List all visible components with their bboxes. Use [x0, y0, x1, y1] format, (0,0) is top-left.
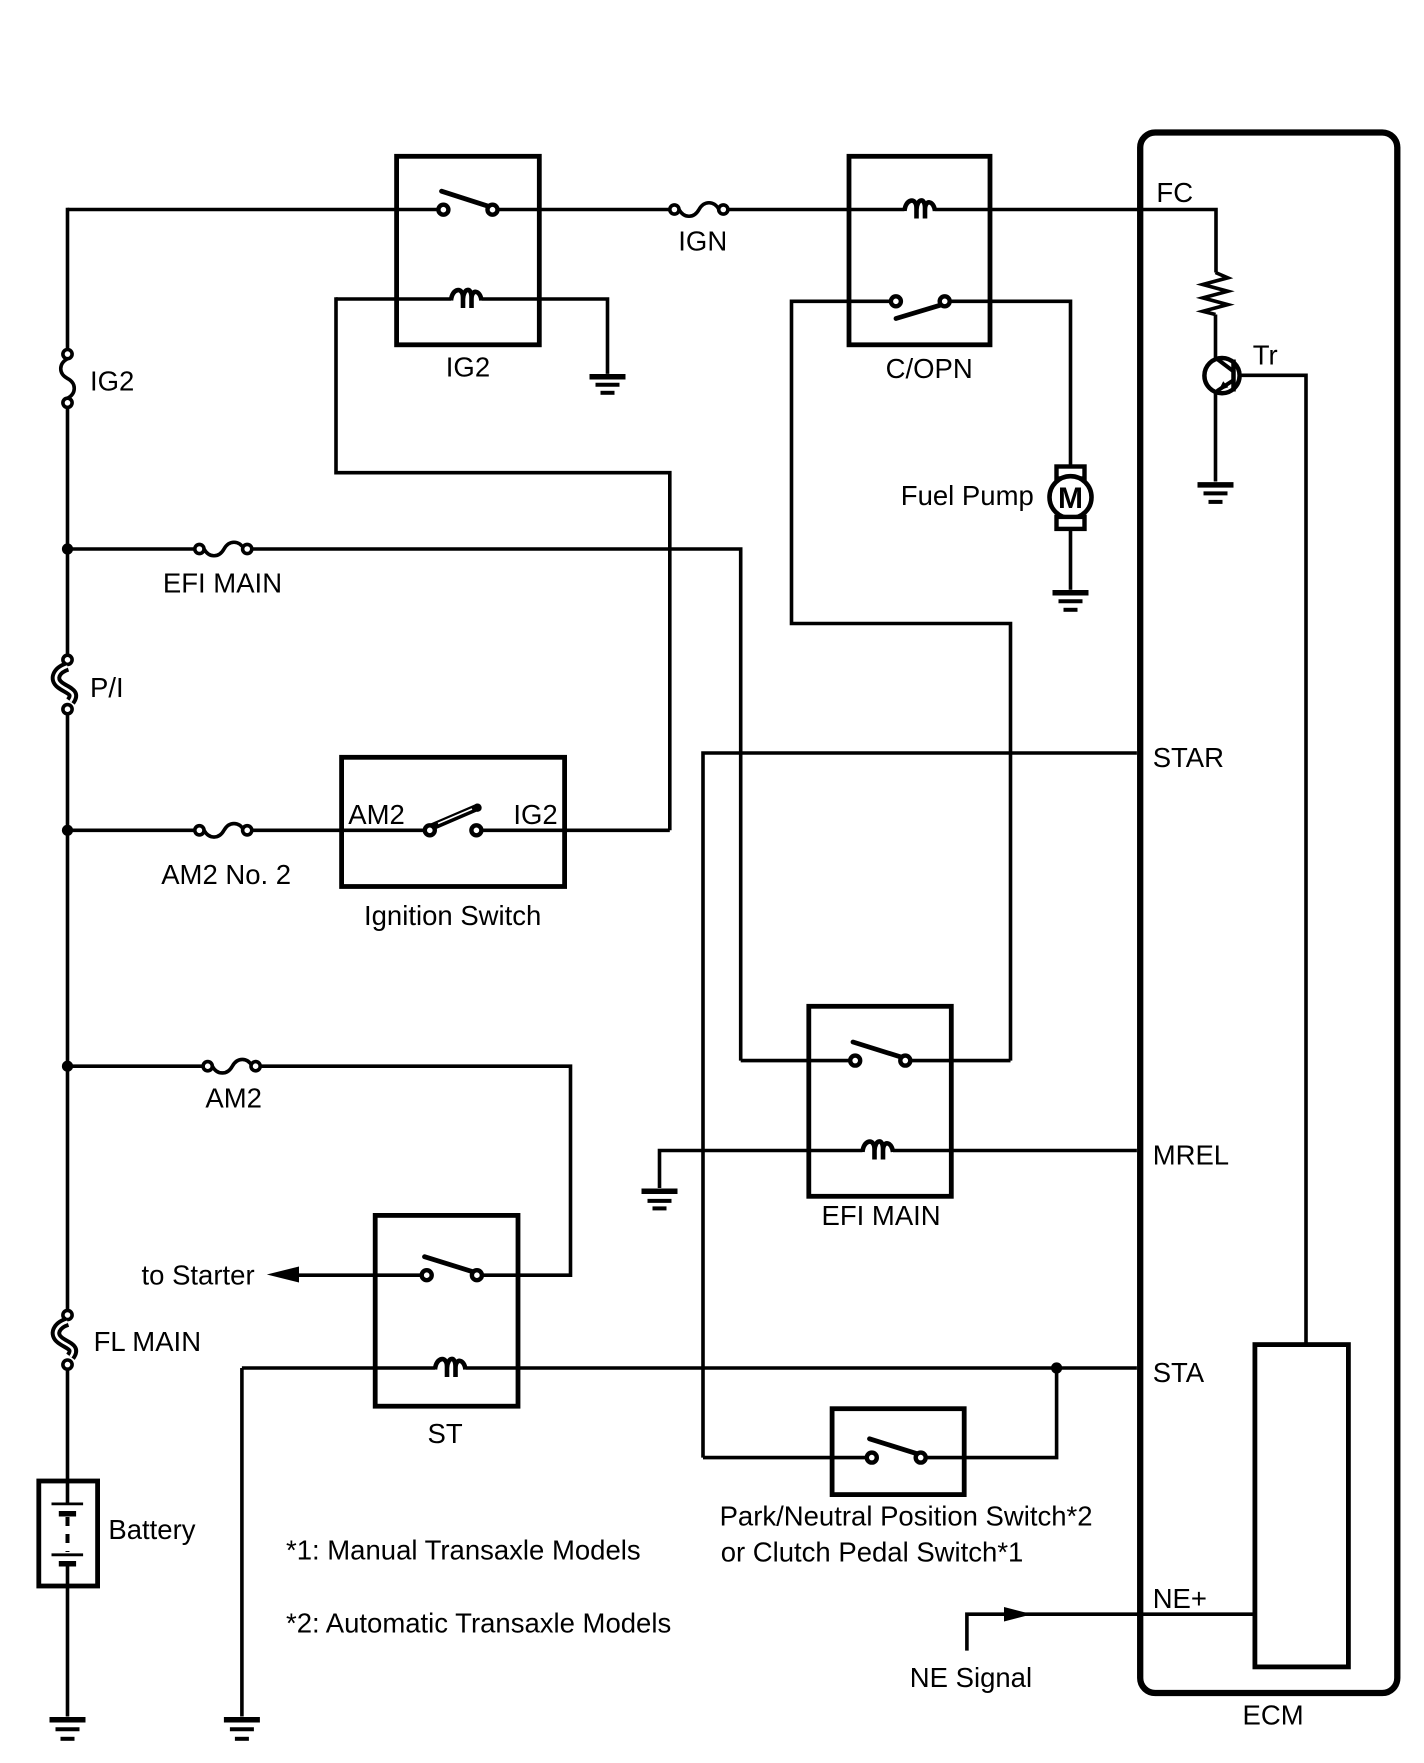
svg-text:STAR: STAR	[1153, 742, 1224, 773]
svg-text:C/OPN: C/OPN	[886, 353, 973, 384]
svg-text:P/I: P/I	[90, 672, 124, 703]
relay ST switch blade	[425, 1257, 474, 1272]
ground EFI MAIN relay coil	[642, 1189, 678, 1195]
svg-text:Fuel Pump: Fuel Pump	[901, 480, 1034, 511]
relay C/OPN switch right contact	[940, 296, 950, 306]
fusible link P/I top circle	[63, 655, 72, 664]
svg-text:NE Signal: NE Signal	[910, 1662, 1032, 1693]
wire to Starter	[296, 1273, 422, 1277]
wire top bus left segment from left bus corner to IG2 relay switch	[68, 208, 439, 212]
node junction dot left bus at AM2 No. 2 branch	[62, 825, 73, 836]
svg-text:AM2: AM2	[205, 1083, 262, 1114]
relay C/OPN switch blade	[896, 305, 942, 319]
svg-text:AM2: AM2	[348, 799, 405, 830]
park/neutral switch right contact	[916, 1453, 926, 1463]
svg-text:IG2: IG2	[513, 799, 557, 830]
svg-text:STA: STA	[1153, 1357, 1205, 1388]
wire AM2 No. 2 branch from left bus to fuse	[68, 828, 195, 832]
wire AM2 branch from fuse right to corner then down to ST relay switch	[260, 1066, 570, 1275]
svg-text:*2: Automatic Transaxle Models: *2: Automatic Transaxle Models	[286, 1608, 671, 1639]
relay IG2 switch right contact	[488, 205, 498, 215]
park/neutral switch left contact	[867, 1453, 877, 1463]
wire top bus from IGN fuse to C/OPN coil	[728, 208, 905, 212]
svg-text:FC: FC	[1156, 177, 1193, 208]
arrow to Starter head	[267, 1267, 299, 1283]
battery top short plate	[59, 1511, 76, 1517]
svg-text:MREL: MREL	[1153, 1140, 1229, 1171]
wire EFI MAIN relay switch left stub	[741, 1059, 851, 1063]
svg-text:M: M	[1058, 482, 1083, 515]
svg-text:to Starter: to Starter	[142, 1260, 255, 1291]
relay EFI MAIN box	[809, 1006, 952, 1196]
wire transistor emitter to ground	[1214, 392, 1218, 482]
svg-text:IG2: IG2	[446, 352, 490, 383]
transistor base bar	[1231, 360, 1236, 392]
fuse AM2 wavy element	[212, 1059, 252, 1073]
transistor emitter arrow	[1219, 381, 1229, 390]
ignition switch IG2 contact	[471, 825, 481, 835]
fuse IG2 top circle	[63, 350, 72, 359]
battery dashed middle link	[66, 1517, 70, 1552]
coil C/OPN relay on top bus	[905, 200, 936, 218]
switch Ignition Switch box	[342, 757, 565, 886]
ground battery	[50, 1717, 86, 1723]
arrow NE signal head	[1004, 1607, 1032, 1622]
relay IG2 box	[397, 156, 540, 344]
svg-text:*1: Manual Transaxle Models: *1: Manual Transaxle Models	[286, 1535, 641, 1566]
wire IG2 coil left branch vertical and bottom run to ignition switch	[336, 297, 670, 830]
node junction dot left bus at EFI MAIN branch	[62, 543, 73, 554]
wire left bus from top corner down to IG2 fuse	[66, 208, 70, 350]
wire EFI MAIN relay switch right stub	[910, 1059, 1010, 1063]
ground fuel pump	[1053, 590, 1089, 596]
relay ST switch left contact	[422, 1270, 432, 1280]
svg-text:AM2 No. 2: AM2 No. 2	[161, 859, 291, 890]
battery bottom short plate	[59, 1561, 76, 1567]
fuse IGN left circle	[670, 205, 679, 214]
wire IG2 relay coil left branch down from coil level to ignition switch IG2 terminal	[336, 297, 451, 301]
ECM internal block	[1255, 1345, 1349, 1667]
svg-text:EFI MAIN: EFI MAIN	[822, 1200, 941, 1231]
relay ST box	[375, 1215, 518, 1406]
relay ST switch right contact	[472, 1270, 482, 1280]
transistor Tr circle	[1204, 358, 1239, 393]
battery bottom long plate	[52, 1553, 84, 1556]
wire STAR from ECM left to corner then down to park/neutral switch	[703, 753, 1137, 1458]
relay EFI MAIN switch right contact	[900, 1056, 910, 1066]
wire resistor to transistor collector	[1214, 315, 1218, 359]
park/neutral switch blade	[870, 1439, 917, 1454]
ignition switch AM2 contact	[425, 825, 435, 835]
svg-text:Battery: Battery	[108, 1514, 195, 1545]
motor fuel pump top brush	[1057, 467, 1085, 479]
svg-text:ECM: ECM	[1243, 1700, 1304, 1731]
wire transistor base branch to internal block	[1239, 375, 1306, 1344]
fuse AM2 left circle	[203, 1062, 212, 1071]
wire fuel pump to ground	[1069, 529, 1073, 590]
relay EFI MAIN switch left contact	[850, 1056, 860, 1066]
svg-text:or Clutch Pedal Switch*1: or Clutch Pedal Switch*1	[721, 1537, 1024, 1568]
ground IG2 relay	[590, 374, 626, 380]
svg-text:Ignition Switch: Ignition Switch	[364, 900, 541, 931]
fuse EFI MAIN left circle	[195, 544, 204, 553]
resistor inside ECM	[1203, 273, 1228, 315]
wire park/neutral switch left stub	[703, 1456, 867, 1460]
wire battery to ground	[66, 1564, 70, 1717]
wire C/OPN switch right branch to fuel pump	[950, 301, 1071, 468]
motor fuel pump circle	[1050, 476, 1092, 518]
wire EFI MAIN relay coil left branch to ground	[660, 1151, 863, 1189]
wire park/neutral switch right branch up to STA wire	[926, 1368, 1057, 1458]
fuse AM2 No. 2 wavy element	[204, 824, 244, 838]
node junction dot left bus at AM2 branch	[62, 1061, 73, 1072]
fusible link FL MAIN top circle	[63, 1310, 72, 1319]
fusible link P/I body	[56, 667, 73, 702]
battery top long plate	[52, 1503, 84, 1506]
wire left bus from FL MAIN link to battery top plate	[66, 1369, 70, 1504]
ignition switch blade tip knob	[473, 804, 481, 812]
coil ST relay	[242, 1366, 435, 1370]
fuse IG2 bottom circle	[63, 398, 72, 407]
wire from AM2 No. 2 fuse to ignition switch AM2 contact	[252, 828, 425, 832]
ground ST coil branch	[224, 1717, 260, 1723]
svg-text:FL MAIN: FL MAIN	[94, 1326, 201, 1357]
svg-text:IG2: IG2	[90, 366, 134, 397]
svg-text:NE+: NE+	[1153, 1583, 1207, 1614]
fusible link FL MAIN bottom circle	[63, 1360, 72, 1369]
ignition switch blade	[431, 808, 478, 828]
wire top bus from IG2 relay switch to IGN fuse	[498, 208, 671, 212]
relay EFI MAIN switch blade	[853, 1042, 902, 1057]
wire STA from ST coil to ECM	[466, 1366, 1137, 1370]
wire EFI MAIN branch from left bus to fuse	[68, 547, 195, 551]
fusible link FL MAIN body	[56, 1322, 73, 1357]
svg-text:EFI MAIN: EFI MAIN	[163, 568, 282, 599]
fuse IGN right circle	[719, 205, 728, 214]
battery box	[39, 1481, 98, 1586]
relay IG2 switch left contact	[438, 205, 448, 215]
wire left bus from IG2 fuse to P/I fusible link	[66, 407, 70, 655]
wire top bus from C/OPN coil into ECM to FC corner then down	[935, 210, 1217, 273]
fuse EFI MAIN wavy element	[204, 542, 244, 556]
fusible link P/I bottom circle	[63, 705, 72, 714]
motor fuel pump bottom brush	[1057, 517, 1085, 529]
fuse EFI MAIN right circle	[243, 544, 252, 553]
ground transistor emitter	[1198, 482, 1234, 488]
wire ignition switch IG2 terminal to right	[481, 828, 670, 832]
wire EFI MAIN branch from fuse right to corner then down to EFI MAIN relay switch	[252, 549, 741, 1061]
fuse AM2 No. 2 left circle	[195, 826, 204, 835]
wire left bus from P/I link down to FL MAIN link	[66, 714, 70, 1311]
fuse AM2 right circle	[251, 1062, 260, 1071]
fuse IG2 wavy element	[61, 359, 75, 399]
relay C/OPN switch left contact	[891, 296, 901, 306]
wire IG2 relay coil right branch to ground	[482, 299, 608, 374]
transistor collector diagonal	[1217, 359, 1234, 372]
svg-text:ST: ST	[428, 1418, 463, 1449]
coil EFI MAIN relay	[863, 1141, 894, 1159]
transistor emitter diagonal	[1217, 381, 1233, 392]
svg-text:Park/Neutral Position Switch*2: Park/Neutral Position Switch*2	[720, 1501, 1093, 1532]
ECM boundary box	[1140, 133, 1397, 1694]
wire AM2 branch from left bus to fuse	[68, 1064, 204, 1068]
fuse AM2 No. 2 right circle	[243, 826, 252, 835]
wire C/OPN switch left branch to EFI MAIN relay switch right side	[792, 301, 1011, 1060]
svg-text:Tr: Tr	[1253, 340, 1278, 371]
node junction dot STA wire and park/neutral branch	[1051, 1362, 1062, 1373]
wire ST coil left branch down to ground	[240, 1368, 244, 1717]
relay IG2 switch blade	[442, 191, 489, 206]
wire NE signal into internal block	[967, 1614, 1255, 1650]
coil IG2 relay	[451, 290, 482, 308]
relay C/OPN box	[849, 156, 990, 344]
switch Park/Neutral box	[832, 1409, 964, 1495]
fuse IGN wavy element	[679, 203, 719, 217]
svg-text:IGN: IGN	[678, 226, 727, 257]
wire MREL from EFI MAIN relay coil to ECM	[893, 1149, 1137, 1153]
